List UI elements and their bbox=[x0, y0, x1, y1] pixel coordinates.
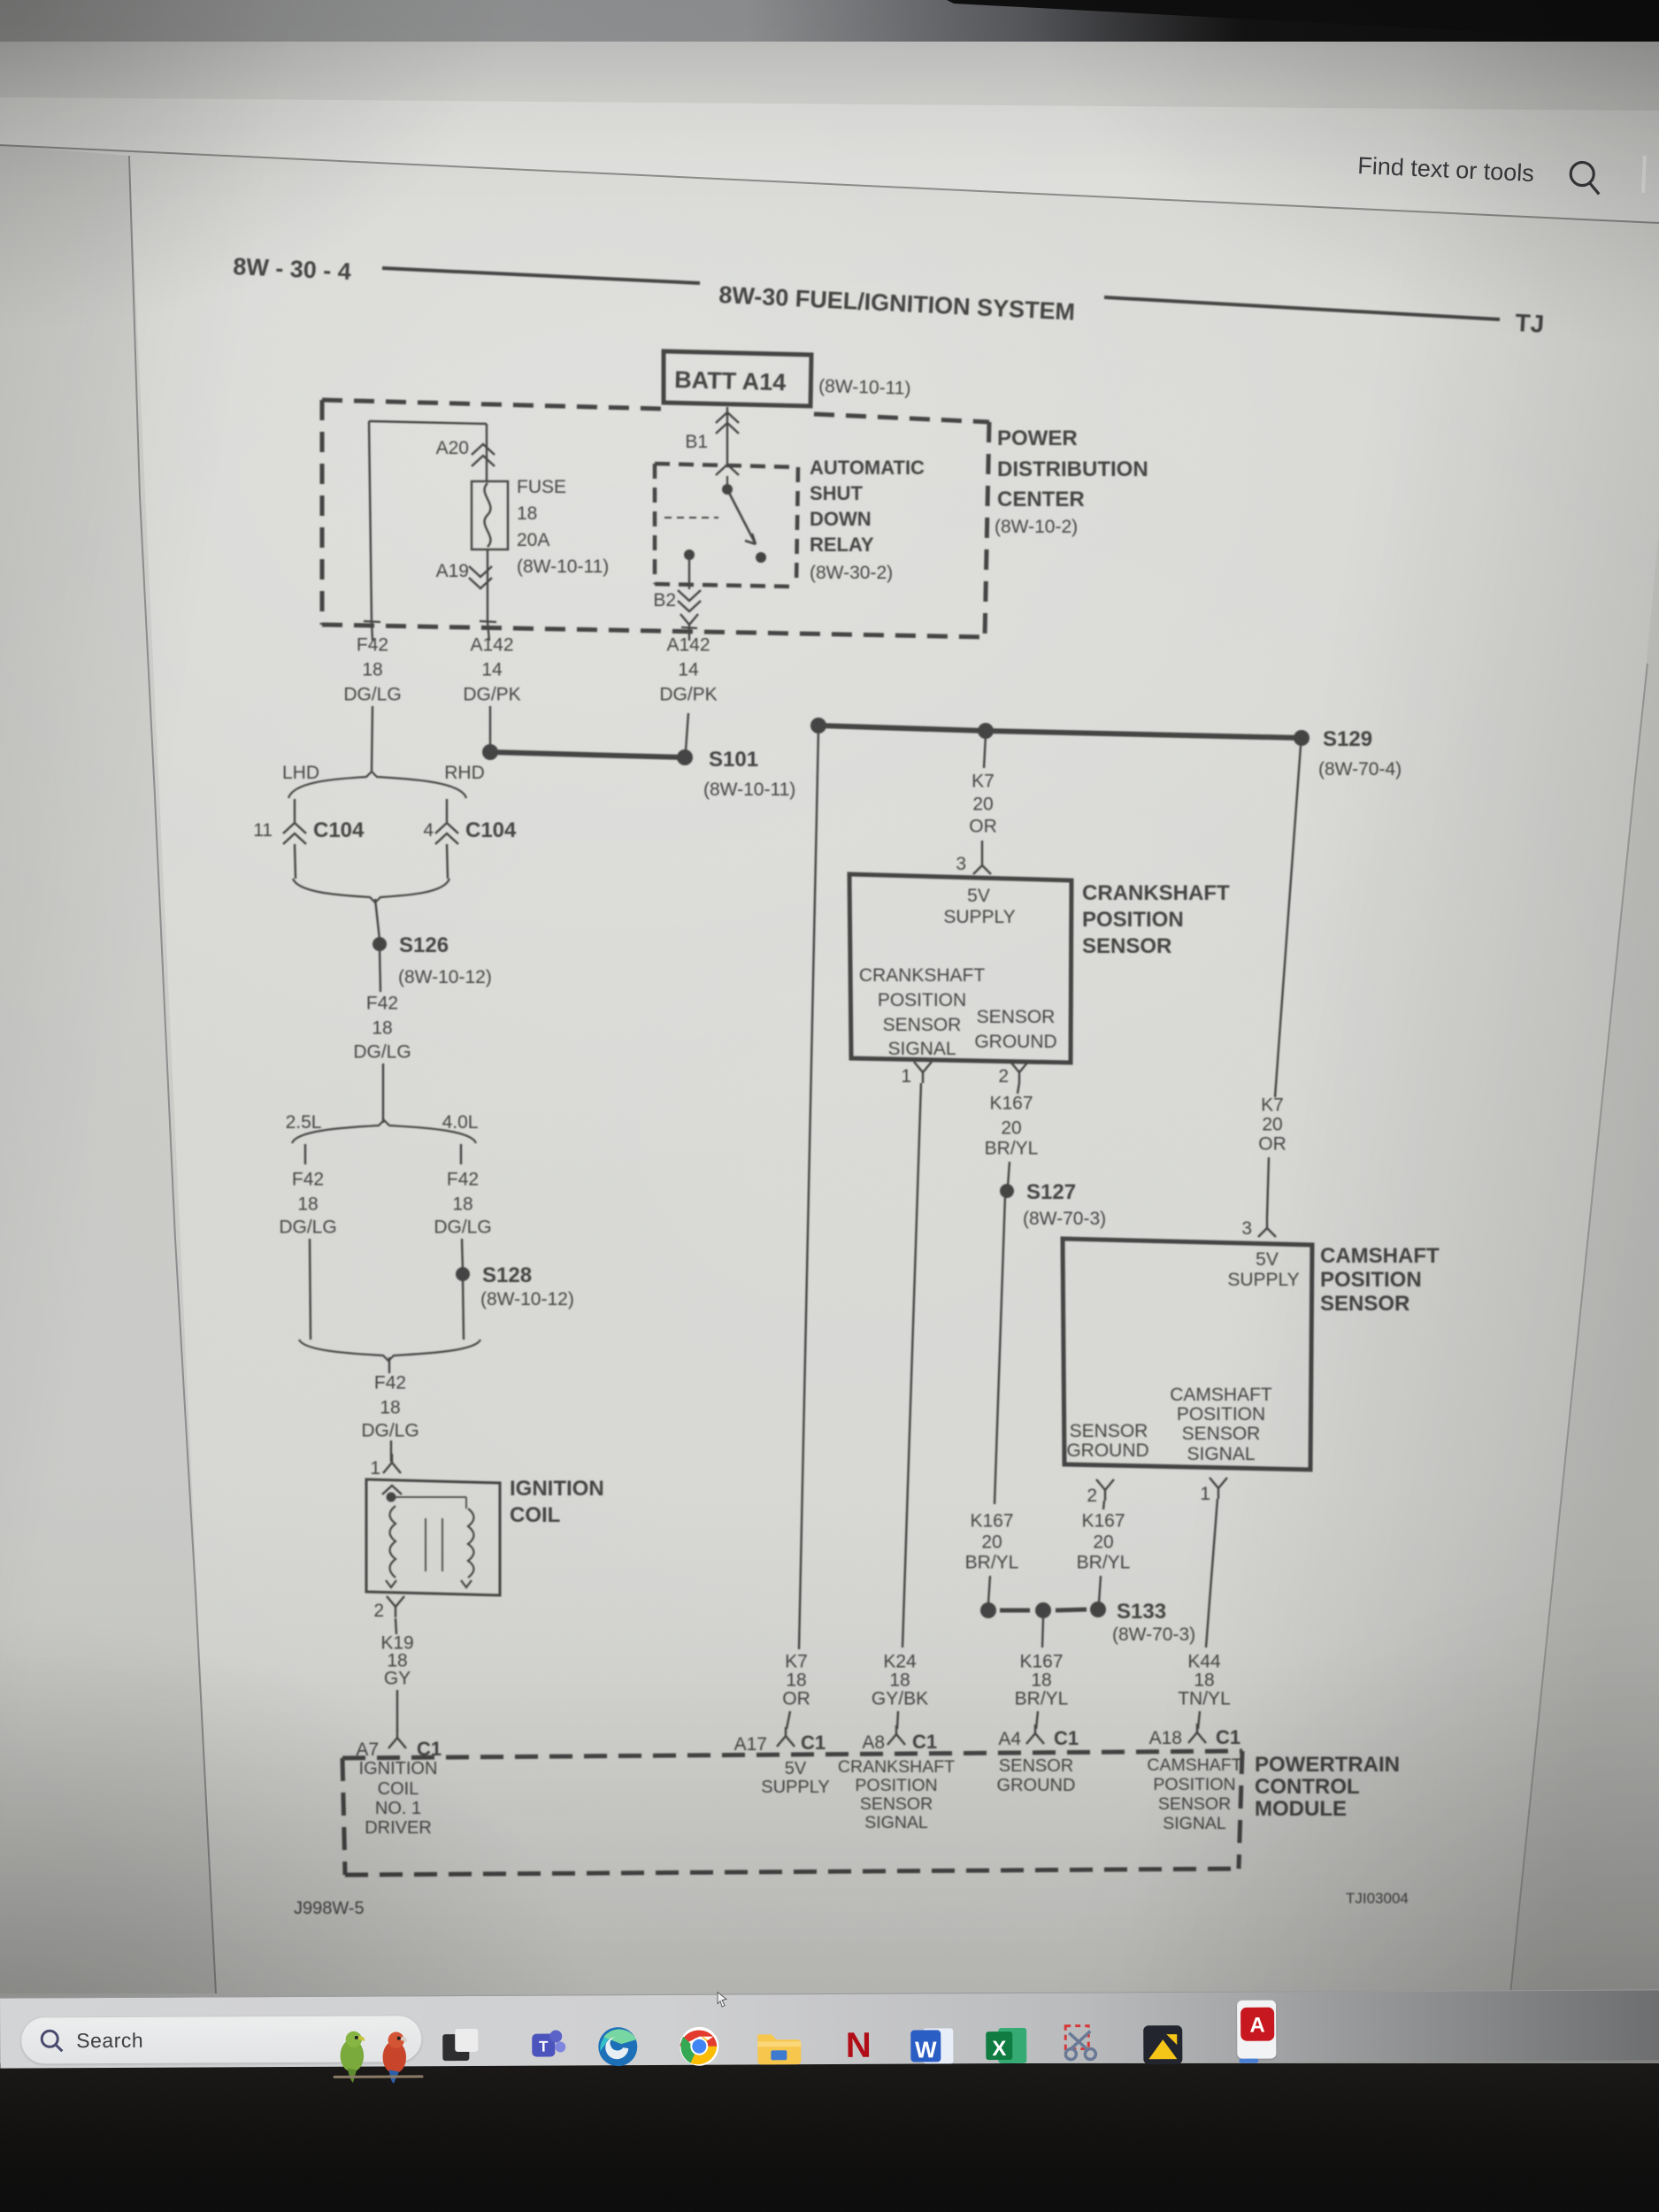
svg-text:A: A bbox=[1249, 2014, 1264, 2038]
svg-text:T: T bbox=[539, 2039, 549, 2055]
svg-text:N: N bbox=[846, 2026, 872, 2065]
svg-text:X: X bbox=[992, 2037, 1006, 2061]
svg-text:W: W bbox=[915, 2036, 937, 2062]
